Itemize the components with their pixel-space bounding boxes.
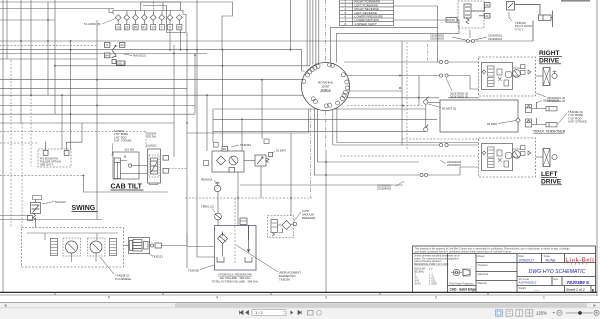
tensioner cylinder 1	[546, 107, 557, 111]
lrelief tri	[528, 151, 531, 155]
check diamond a	[482, 70, 486, 74]
svg-text:Drawn: Drawn	[478, 255, 486, 258]
valve row feed wire left	[109, 9, 113, 13]
svg-text:65,6952: 65,6952	[487, 122, 498, 126]
wire corner y192	[84, 176, 169, 193]
wire right vertical x533	[532, 21, 534, 42]
svg-text:.025 DIA: .025 DIA	[146, 135, 156, 139]
wire bus y123	[0, 122, 174, 124]
svg-text:------: ------	[534, 289, 539, 292]
cab cylinder body	[114, 158, 120, 179]
layout icon continuous	[506, 310, 513, 316]
labels 231960001 lower	[377, 184, 391, 191]
svg-text:71: 71	[105, 43, 109, 47]
vertical wire x242	[241, 119, 243, 151]
valve arrow	[112, 46, 116, 51]
legend texts	[345, 0, 383, 26]
valve block outline	[148, 149, 161, 183]
wire y75.5 to disconnect	[346, 75, 439, 77]
page nav controls	[240, 311, 249, 315]
next page icon	[291, 311, 294, 315]
vertical wire x290.5 top	[290, 0, 292, 50]
pump port box top	[222, 147, 228, 152]
svg-text:24: 24	[120, 43, 124, 47]
dash-dot stub x427	[427, 44, 429, 62]
vb valve lines	[272, 223, 278, 227]
wire relief valve drain	[260, 166, 262, 198]
vertical wire x3 full	[2, 0, 4, 292]
tensioner valve bottom	[526, 119, 532, 127]
legend column divider	[352, 0, 354, 26]
svg-text:231984001: 231984001	[377, 187, 391, 191]
legend wrap wire 2	[336, 20, 459, 63]
dashed wire y105.5 right	[347, 105, 424, 107]
2-speed cylinder	[539, 15, 552, 20]
svg-text:8 CU&MESH: 8 CU&MESH	[115, 277, 131, 281]
left drive brake circle	[552, 154, 557, 159]
wire bus y53.5	[0, 53, 207, 55]
manifold small box right	[155, 243, 162, 248]
leader 201970002	[446, 78, 452, 91]
blue fields	[519, 259, 557, 292]
65X26 label box	[446, 18, 457, 23]
svg-text:.031 DIA: .031 DIA	[124, 148, 134, 152]
so/t8 divider	[561, 277, 563, 286]
wire bus y20	[0, 19, 55, 21]
svg-text:9.30" STROKE: 9.30" STROKE	[114, 139, 132, 143]
vertical wire x222	[221, 50, 223, 147]
port box 84	[105, 53, 110, 58]
reservoir filter diamond	[218, 234, 228, 244]
vertical wire x187	[186, 33, 188, 269]
tensioner valve check	[527, 106, 531, 108]
sub-box around valves 7-8	[143, 6, 167, 33]
dashed stub right of valve	[169, 168, 188, 170]
wire y145 swivel to left drive disconnect	[333, 144, 439, 146]
wire swing manifold link	[124, 233, 188, 246]
vacuum breaker dashed box	[268, 216, 294, 238]
shuttle box	[497, 69, 502, 75]
lshuttle box	[497, 150, 502, 156]
manifold valve lines	[134, 243, 142, 249]
svg-text:CRANES: CRANES	[567, 263, 589, 266]
cab cylinder rod	[116, 163, 118, 179]
svg-text:T8J0299: T8J0299	[279, 278, 290, 282]
svg-text:Approved: Approved	[478, 273, 489, 276]
wire y75.5 elbow to right drive	[448, 76, 479, 90]
counterbalance spool 1	[488, 66, 495, 76]
check valve diamond 8	[176, 15, 182, 21]
wire bus y95.2	[0, 94, 304, 96]
leader cyl spec	[112, 143, 113, 156]
zoom slider track	[566, 312, 593, 314]
right weight row line	[517, 285, 596, 287]
svg-text:.XXX: .XXX	[414, 281, 420, 283]
lassembly stubs	[513, 149, 521, 157]
nau W box	[28, 216, 33, 221]
swivel circle	[302, 63, 350, 111]
vertical wire x326 long drop to reservoir	[325, 150, 327, 292]
port numbers	[116, 26, 181, 30]
svg-text:4.00" STROKE: 4.00" STROKE	[568, 120, 587, 124]
svg-text:CAB TILT: CAB TILT	[111, 184, 143, 191]
leader T8R91	[212, 209, 215, 213]
left drive dashed enclosure	[479, 138, 536, 177]
valve stems	[118, 20, 179, 24]
nau valve arrows	[32, 205, 40, 213]
wire y119.3	[213, 118, 437, 120]
wire x437.5 down to disconnect row	[437, 27, 439, 62]
scrollbar left button	[4, 304, 7, 307]
svg-text:T8R91 (2): T8R91 (2)	[201, 205, 214, 209]
leader replacement element long diagonal	[236, 245, 278, 272]
svg-text:4/2074/02013: 4/2074/02013	[519, 280, 537, 284]
right top row line	[517, 262, 596, 264]
valve body	[112, 51, 117, 58]
divider tolerances col	[447, 254, 449, 293]
vertical wire x7	[6, 0, 8, 59]
label 40 boxes	[486, 3, 490, 18]
svg-text:1 / 2: 1 / 2	[255, 310, 264, 315]
wire y142.5 to left drive	[337, 142, 478, 144]
vertical wire x402	[401, 41, 403, 145]
bundle below swivel 2	[318, 109, 420, 163]
labels 231990001 (2)	[547, 96, 565, 103]
drain valve	[504, 80, 509, 86]
tensioner cylinder 2	[546, 123, 557, 127]
svg-text:231063002: 231063002	[447, 163, 461, 167]
wire into reservoir left	[187, 246, 215, 248]
zone ticks	[54, 293, 56, 295]
svg-text:BREAKER: BREAKER	[302, 216, 315, 220]
wire y219.5 left	[0, 219, 102, 221]
wire swing feed	[0, 216, 102, 228]
wire bus y41 left	[0, 40, 466, 42]
Link-Belt logo	[566, 258, 595, 266]
svg-text:40: 40	[223, 147, 227, 151]
wire bus y105.5	[0, 105, 195, 107]
vertical wire x419	[418, 76, 420, 106]
quick disconnect pair (443,145)	[439, 143, 448, 146]
field spinner	[283, 312, 285, 314]
leader HAU0102	[124, 54, 132, 56]
nau label box	[33, 196, 42, 200]
suction port box a	[214, 143, 219, 148]
leader T8J0126	[509, 12, 512, 21]
manifold outer	[129, 238, 150, 254]
svg-text:inches. The tolerances below: inches. The tolerances below are applica…	[414, 257, 459, 260]
wire y145 continuation	[448, 144, 478, 146]
lrelief arrows	[498, 158, 502, 162]
pump port box bottom	[229, 168, 235, 173]
top-right gray sliver (window edge)	[561, 0, 590, 2]
port box 24	[120, 43, 125, 48]
last page icon	[298, 311, 301, 315]
valve row top bus y2	[141, 2, 181, 11]
check valve diamond 2	[124, 15, 130, 21]
layout icon continuous facing	[526, 310, 533, 316]
leader NAU012	[42, 202, 54, 205]
svg-text:5: 5	[108, 296, 110, 300]
svg-text:4: 4	[216, 296, 218, 300]
labels 231060002	[447, 160, 461, 167]
divider projection col	[475, 254, 477, 293]
svg-text:REFERENCE ASME Y14.5 -2009: REFERENCE ASME Y14.5 -2009	[414, 263, 449, 266]
svg-text:ANGULAR: ANGULAR	[414, 268, 425, 271]
legend drop wires	[330, 6, 459, 64]
layout icon single (active)	[496, 310, 503, 316]
svg-text:40: 40	[486, 14, 490, 18]
dashed vertical x11	[10, 60, 12, 227]
cylinder rod end bar	[552, 11, 554, 28]
dash-dot centerline through swivel	[324, 0, 326, 63]
port number boxes	[116, 25, 182, 30]
swing motor 2 arrow	[93, 244, 100, 251]
wire cyl to valve	[120, 161, 148, 174]
bundle wire 4	[312, 0, 314, 65]
spool 1 lines	[488, 69, 494, 73]
vertical wire x238 pump drop	[237, 172, 239, 226]
assembly stub wires	[513, 68, 521, 76]
solenoid check valves (8)	[115, 15, 182, 25]
svg-text:231060002: 231060002	[430, 37, 444, 41]
reservoir outline	[215, 226, 257, 271]
wire y62 continuation into right drive	[448, 61, 479, 63]
cluster dashed box	[458, 1, 484, 28]
snapshot icon (gray)	[308, 311, 314, 316]
zoom in button	[594, 310, 599, 315]
lmotor circle 1	[505, 152, 512, 159]
pump arrow	[231, 158, 236, 164]
svg-text:CAD - Solid Edge: CAD - Solid Edge	[450, 288, 476, 292]
filter mesh line	[219, 236, 226, 242]
wire to gearbox	[536, 75, 544, 77]
svg-text:Rev.: Rev.	[554, 278, 559, 281]
label replacement element	[279, 271, 301, 282]
wire swing box drop	[35, 222, 37, 228]
relief arrows	[498, 77, 502, 81]
svg-text:and details contained herein i: and details contained herein is prohibit…	[415, 251, 513, 254]
tensioner wires	[532, 102, 547, 125]
svg-text:TRACK TENSIONER: TRACK TENSIONER	[533, 130, 566, 134]
check valve diamond 1	[115, 15, 121, 21]
motor circle 1	[505, 71, 512, 78]
lsmall boxes	[521, 146, 526, 150]
vertical wire x291	[290, 133, 292, 216]
swing brake valve right	[110, 239, 117, 256]
svg-text:9: 9	[169, 26, 171, 30]
bundle wire 5	[315, 0, 317, 64]
svg-text:± .0005: ± .0005	[429, 284, 437, 286]
wire y185 lower	[240, 184, 403, 186]
rev divider	[551, 277, 553, 286]
lwire to gearbox	[536, 156, 544, 158]
svg-text:T8J0394: T8J0394	[240, 143, 251, 147]
manifold port circle	[150, 244, 153, 247]
lcheck diamond	[482, 151, 486, 155]
pump unit box	[212, 151, 244, 172]
svg-text:R8J0218: R8J0218	[201, 178, 213, 182]
svg-text:DWG HYD SCHEMATIC: DWG HYD SCHEMATIC	[529, 269, 586, 275]
cab tilt subsystem box	[113, 152, 139, 179]
dashed vertical x22	[21, 123, 23, 227]
bundle below swivel 5	[336, 105, 338, 143]
wire bus y41 right of disconnect	[474, 40, 533, 42]
cylinder piston	[542, 15, 544, 20]
tensioner check 2	[527, 120, 531, 122]
svg-text:7: 7	[161, 26, 163, 30]
vertical wire x195	[194, 55, 196, 114]
scrollbar track	[0, 303, 600, 308]
label TS40H8	[115, 274, 131, 282]
wire y109	[213, 108, 426, 110]
confidential fine print	[415, 248, 571, 254]
dashed wire y139 to left drive	[402, 138, 478, 140]
vacuum breaker caption	[302, 209, 315, 220]
check valve diamond 3	[133, 15, 139, 21]
check valve diamond 7	[167, 15, 173, 21]
motor circle 2	[513, 70, 521, 78]
71 24 84 labels	[105, 43, 124, 58]
junction dots row	[47, 19, 49, 21]
svg-text:Material: Material	[478, 282, 487, 285]
svg-text:Weight: Weight	[519, 287, 527, 290]
wire y175 continuation	[427, 167, 478, 175]
svg-text:HAU0102: HAU0102	[133, 54, 146, 58]
lmotor circle 2	[513, 151, 521, 159]
percent dropdown caret	[553, 312, 555, 314]
swing inner wires top	[27, 233, 118, 240]
svg-text:.XXXX: .XXXX	[414, 284, 421, 286]
svg-text:125%: 125%	[536, 311, 547, 316]
vb filter diamond	[282, 221, 291, 230]
svg-text:51,2W02 (8): 51,2W02 (8)	[84, 22, 101, 26]
vb valve body	[271, 220, 278, 233]
leader GEA87	[536, 101, 542, 104]
pump circle	[229, 156, 238, 165]
svg-text:TOTAL SYSTEM VOLUME - 294 GAL: TOTAL SYSTEM VOLUME - 294 GAL	[211, 280, 258, 284]
svg-text:SWING: SWING	[72, 205, 96, 212]
svg-text:13: 13	[116, 26, 120, 30]
wire bus y59	[0, 58, 97, 60]
quick disconnect pair (462,62)	[439, 60, 448, 63]
leader TS40H8	[100, 257, 114, 274]
swivel ports bottom left	[313, 99, 317, 103]
swivel ports lower right arc	[343, 90, 347, 94]
bundle wire 2	[306, 0, 308, 66]
swivel ports right	[345, 80, 349, 84]
wire pump down	[217, 192, 219, 213]
dashed wire y198 center	[185, 197, 312, 199]
port box 40a	[485, 3, 491, 8]
relief arrow	[257, 157, 263, 164]
legend row lines	[340, 2, 394, 4]
boom pin texts	[40, 157, 61, 167]
cab tilt circle port	[128, 164, 131, 167]
leader R8J0218	[214, 180, 217, 184]
label 201970002	[450, 92, 468, 99]
charge pump circle	[215, 213, 222, 220]
labels 231960001 231964001 top	[488, 34, 502, 41]
swivel port upper right	[341, 73, 345, 77]
wire x197 drop to reservoir	[197, 151, 215, 257]
svg-text:T8J0121: T8J0121	[152, 255, 163, 259]
vertical wire x180.5 valve8 drop	[180, 30, 182, 50]
vertical wire x426 ball valve drop	[425, 104, 427, 132]
swivel ports bottom pair	[328, 103, 332, 107]
leader 65,6952	[498, 121, 516, 124]
svg-text:12: 12	[151, 26, 155, 30]
svg-text:Third Angle Projection: Third Angle Projection	[449, 282, 474, 285]
svg-text:unless otherwise specified.: unless otherwise specified.	[414, 260, 442, 263]
suction strainer box	[240, 218, 247, 225]
right drive dashed enclosure	[479, 57, 536, 96]
nau valve body	[31, 203, 41, 214]
wire y133	[187, 132, 309, 134]
wire bus y88.4	[0, 87, 187, 89]
boom pin port box 1	[43, 150, 48, 155]
svg-text:50: 50	[134, 26, 138, 30]
vertical wire x207	[206, 95, 208, 151]
boom pin dashed box	[38, 149, 71, 167]
swing pilot valve NAU012	[28, 196, 42, 222]
valve port box right 2	[163, 169, 169, 174]
lspool 1 lines	[488, 150, 494, 154]
legend table outline	[340, 0, 394, 26]
valve block spool	[151, 158, 158, 174]
vertical wire x197	[196, 0, 198, 151]
leader 231060002	[440, 160, 446, 164]
prev page icon	[246, 311, 249, 315]
shuttle arrow	[508, 3, 513, 8]
SWING underline	[72, 211, 98, 213]
manifold hatch box	[130, 241, 133, 251]
brake stub	[553, 70, 557, 73]
first page icon	[240, 311, 244, 315]
caption underline	[533, 132, 564, 134]
relief tri	[528, 70, 531, 74]
dashed wire y156 to left drive	[340, 155, 478, 157]
leader 52.6947	[272, 151, 275, 154]
swing motor 2	[90, 241, 102, 253]
svg-text:T8J0008: T8J0008	[188, 269, 199, 273]
vertical wire x213	[212, 109, 214, 143]
boom pin port box 2	[64, 150, 69, 155]
boom pin wires	[46, 123, 82, 150]
sol box small	[269, 153, 273, 157]
svg-text:Checked: Checked	[478, 264, 488, 267]
wire y216 left	[0, 215, 30, 217]
LEFT DRIVE underlines	[541, 177, 562, 185]
E box divider	[590, 286, 592, 293]
vertical wire x62	[61, 95, 63, 149]
reservoir caption	[211, 273, 258, 284]
leader T8J0008	[200, 265, 214, 270]
shuttle valve right	[507, 2, 515, 11]
wire bus y114.2	[0, 113, 195, 115]
dashed vertical x406 centerline	[406, 42, 408, 150]
svg-text:Date: Date	[519, 255, 525, 258]
signature rows	[476, 262, 517, 264]
wire bus y8.5	[0, 8, 114, 10]
svg-text:DECIMAL: DECIMAL	[414, 271, 425, 274]
SOL A box	[117, 61, 126, 65]
quick disconnect pair (423,175)	[420, 173, 428, 176]
svg-text:84: 84	[105, 54, 109, 58]
CAB TILT underline	[111, 189, 144, 191]
small boxes right	[521, 65, 526, 69]
leader to labels	[536, 93, 546, 97]
